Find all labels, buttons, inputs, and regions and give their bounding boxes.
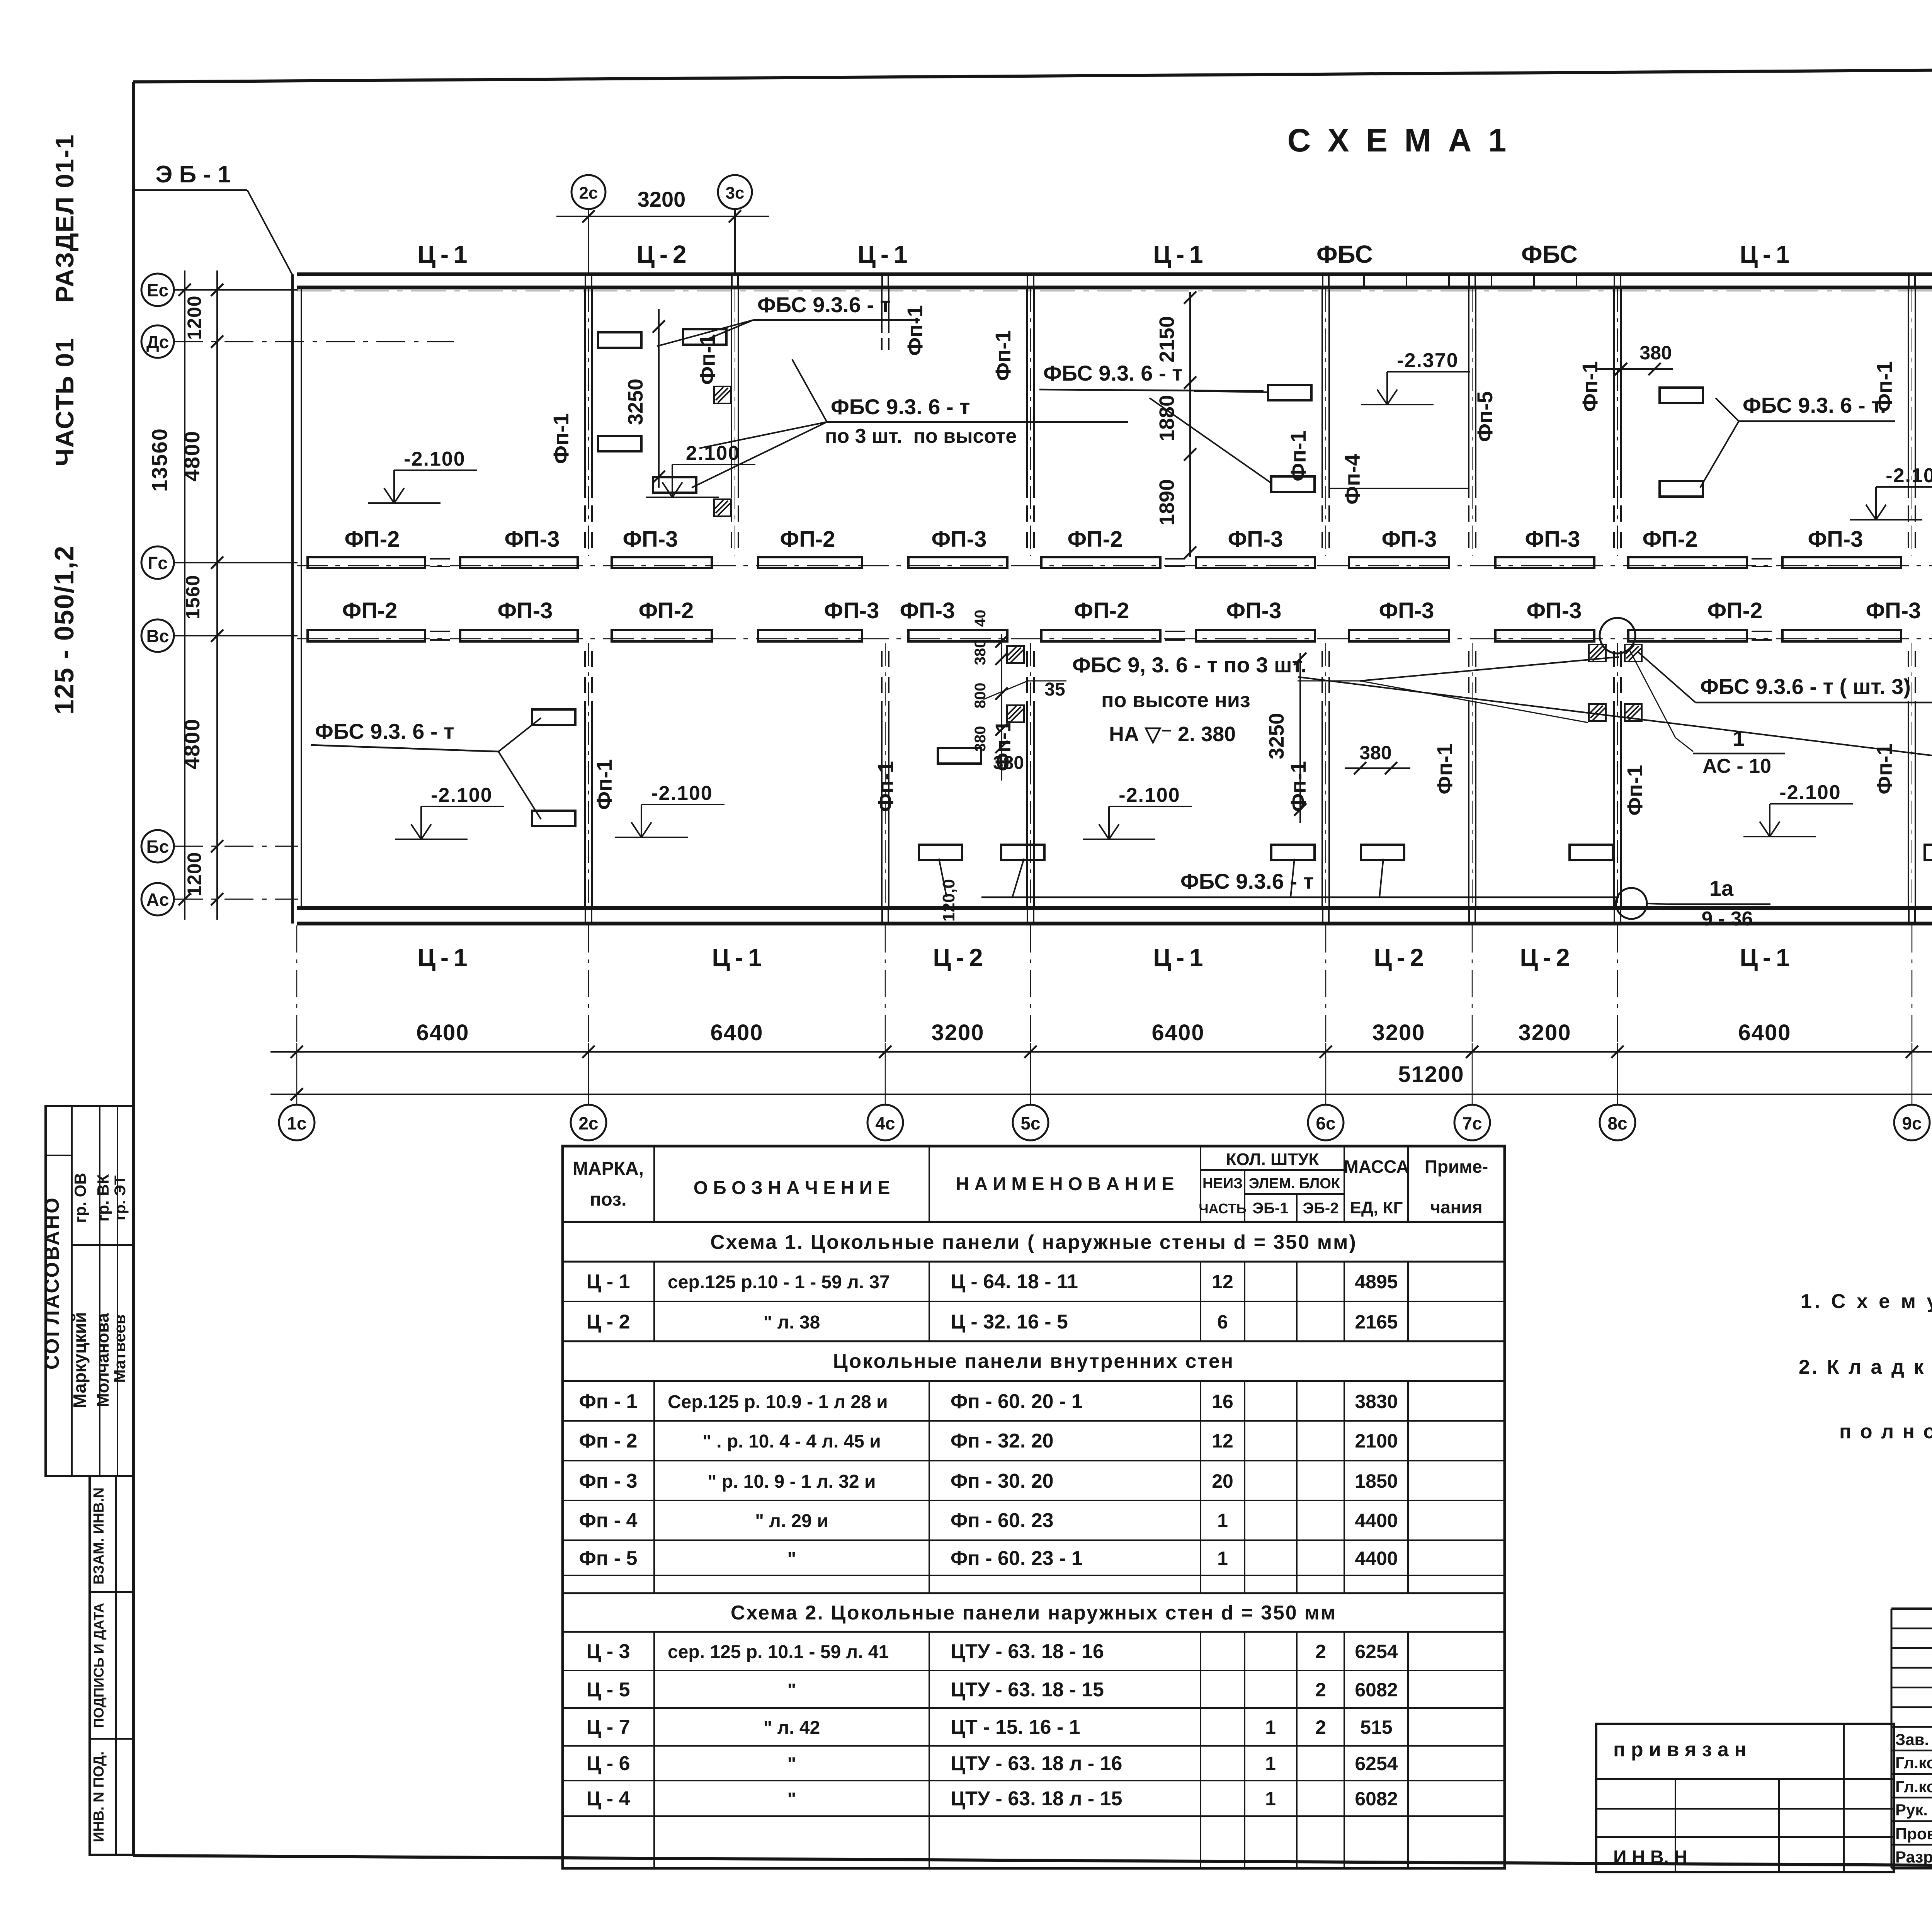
svg-text:1: 1 xyxy=(1265,1753,1276,1774)
svg-text:Маркуцкий: Маркуцкий xyxy=(70,1312,90,1408)
top exterior wall xyxy=(297,272,1932,276)
parts table outer border xyxy=(563,1146,1505,1868)
svg-text:ЦТУ - 63. 18 л - 15: ЦТУ - 63. 18 л - 15 xyxy=(951,1788,1122,1810)
interior wall ФП-1 at 7c lower half xyxy=(1468,701,1469,907)
svg-text:3с: 3с xyxy=(726,184,745,202)
svg-text:2150: 2150 xyxy=(1155,316,1179,362)
svg-text:ЦТ - 15. 16 - 1: ЦТ - 15. 16 - 1 xyxy=(951,1716,1080,1738)
parts table header verticals xyxy=(653,1146,655,1222)
hatch square right of 3c lower xyxy=(714,499,731,516)
parts table header row lines xyxy=(1201,1169,1344,1171)
axis line Дc xyxy=(174,341,454,342)
svg-text:Ц - 1: Ц - 1 xyxy=(1153,240,1203,268)
svg-text:гр. ЭТ: гр. ЭТ xyxy=(112,1175,129,1220)
axis line drop 3c xyxy=(734,209,736,274)
svg-text:Фп - 30. 20: Фп - 30. 20 xyxy=(951,1470,1054,1492)
svg-text:Ц - 6: Ц - 6 xyxy=(586,1752,630,1775)
stamp column line 2 xyxy=(99,1106,100,1476)
svg-text:1880: 1880 xyxy=(1155,395,1179,441)
axis circle Аc xyxy=(141,883,174,915)
svg-text:1: 1 xyxy=(1217,1510,1228,1531)
svg-text:ЭБ-2: ЭБ-2 xyxy=(1303,1200,1339,1217)
block ФБС bay 5c-6c upper xyxy=(1268,385,1311,400)
axis circle Дc xyxy=(141,325,174,358)
privyazan vertical line c xyxy=(1843,1724,1845,1872)
svg-text:ФП-3: ФП-3 xyxy=(1226,598,1282,623)
vertical dim 3250 bay 6c xyxy=(1299,653,1301,823)
svg-text:Аc: Аc xyxy=(146,890,169,910)
corridor upper wall panel segment xyxy=(308,557,425,568)
svg-text:Фп-5: Фп-5 xyxy=(1473,391,1497,442)
svg-text:380: 380 xyxy=(993,753,1024,773)
block ФБС bay 5c-6c lower xyxy=(1271,476,1315,492)
svg-text:И Н В. Н: И Н В. Н xyxy=(1613,1847,1687,1868)
svg-text:2с: 2с xyxy=(579,184,598,202)
svg-text:ФП-3: ФП-3 xyxy=(1525,527,1580,552)
svg-text:20: 20 xyxy=(1212,1470,1233,1492)
svg-text:515: 515 xyxy=(1360,1716,1392,1738)
svg-text:3200: 3200 xyxy=(1518,1020,1571,1045)
svg-text:ЧАСТЬ 01: ЧАСТЬ 01 xyxy=(50,337,79,466)
svg-text:2: 2 xyxy=(1315,1716,1326,1738)
dimension tick left chain xyxy=(211,840,223,852)
svg-text:": " л. 38 xyxy=(764,1312,820,1333)
svg-text:4400: 4400 xyxy=(1355,1548,1398,1569)
parts table data row xyxy=(563,1575,1505,1576)
svg-text:Ц - 2: Ц - 2 xyxy=(933,944,983,971)
svg-text:4800: 4800 xyxy=(180,718,204,770)
svg-text:Фп-1: Фп-1 xyxy=(592,759,616,810)
interior wall ФП-1 at 7c upper half xyxy=(1468,289,1469,498)
svg-text:НА ▽⁻ 2. 380: НА ▽⁻ 2. 380 xyxy=(1109,723,1236,746)
svg-text:сер.125 р.10 - 1 - 59 л. 37: сер.125 р.10 - 1 - 59 л. 37 xyxy=(668,1272,890,1293)
svg-text:6с: 6с xyxy=(1316,1113,1335,1133)
corridor upper wall panel segment xyxy=(612,557,712,568)
svg-text:-2.100: -2.100 xyxy=(651,782,713,805)
svg-text:1: 1 xyxy=(1733,726,1745,750)
left total dimension line xyxy=(184,270,185,920)
svg-text:ЭБ-1: ЭБ-1 xyxy=(1253,1200,1289,1217)
inventory strip box xyxy=(90,1476,133,1855)
svg-text:ФП-3: ФП-3 xyxy=(505,527,560,552)
svg-text:ФБС 9.3.6 - т ( шт. 3): ФБС 9.3.6 - т ( шт. 3) xyxy=(1700,674,1911,699)
svg-text:ПОДПИСЬ И ДАТА: ПОДПИСЬ И ДАТА xyxy=(91,1603,107,1728)
corridor upper wall dashed joint xyxy=(430,558,456,560)
corridor upper wall panel segment xyxy=(1495,557,1594,568)
svg-text:3250: 3250 xyxy=(1265,713,1288,759)
svg-text:1с: 1с xyxy=(287,1113,306,1133)
interior wall ФП-1 at 8c upper half xyxy=(1613,289,1615,498)
svg-text:3200: 3200 xyxy=(931,1020,984,1045)
svg-text:120,0: 120,0 xyxy=(939,879,958,922)
svg-text:Ц - 32. 16 - 5: Ц - 32. 16 - 5 xyxy=(951,1311,1068,1333)
svg-text:380: 380 xyxy=(972,640,989,665)
svg-text:6400: 6400 xyxy=(1738,1020,1791,1045)
svg-text:-2.100: -2.100 xyxy=(404,448,465,470)
svg-text:4800: 4800 xyxy=(180,430,204,482)
svg-text:Сер.125 р. 10.9 - 1 л 2: Сер.125 р. 10.9 - 1 л 28 и xyxy=(668,1392,888,1412)
svg-text:ФП-2: ФП-2 xyxy=(780,527,835,552)
title block row Зав. отд Бахолдина xyxy=(1891,1750,1932,1752)
svg-text:Гc: Гc xyxy=(148,553,168,573)
axis circle Бc xyxy=(141,830,174,862)
svg-text:сер. 125 р. 10.1 - 59 л. 41: сер. 125 р. 10.1 - 59 л. 41 xyxy=(668,1642,889,1662)
svg-text:3200: 3200 xyxy=(1372,1020,1425,1045)
privyazan vertical line b xyxy=(1778,1779,1780,1872)
bottom wall panel joints xyxy=(585,908,586,924)
svg-text:380: 380 xyxy=(1359,742,1391,764)
block ФБС bay 4c-5c mid xyxy=(938,748,981,764)
svg-text:Ц - 1: Ц - 1 xyxy=(1740,240,1789,268)
inventory strip divider 1 xyxy=(90,1591,133,1593)
svg-text:Ц - 3: Ц - 3 xyxy=(586,1640,630,1663)
svg-text:ВЗАМ. ИНВ.N: ВЗАМ. ИНВ.N xyxy=(91,1487,107,1584)
svg-text:2165: 2165 xyxy=(1355,1311,1398,1333)
hatch squares flanking 8c xyxy=(1589,645,1606,662)
svg-text:Провер.: Провер. xyxy=(1895,1825,1932,1843)
svg-text:6082: 6082 xyxy=(1355,1679,1398,1701)
left segment dimension line xyxy=(216,270,218,920)
blocks ФБС bay 8c right xyxy=(1660,388,1703,403)
stamp column line 3 xyxy=(117,1106,118,1476)
parts table data row xyxy=(563,1815,1505,1817)
privyazan vertical line a xyxy=(1675,1779,1676,1872)
title block signature grid columns upper xyxy=(1891,1609,1893,1868)
svg-text:800: 800 xyxy=(972,683,989,709)
svg-text:1: 1 xyxy=(1217,1548,1228,1569)
svg-text:Фп-1: Фп-1 xyxy=(695,334,719,384)
corridor lower wall panel segment xyxy=(460,630,578,641)
corridor lower wall axis line xyxy=(297,638,1932,640)
svg-text:2: 2 xyxy=(1315,1641,1326,1662)
block ФБС bay 2c-3c lower xyxy=(653,477,696,493)
parts table section heading row xyxy=(563,1221,1505,1223)
svg-text:ФП-3: ФП-3 xyxy=(932,527,987,552)
svg-text:Фп - 1: Фп - 1 xyxy=(579,1390,638,1413)
privyazan internal row line 3 xyxy=(1596,1836,1894,1838)
dimension tick left chain xyxy=(211,284,223,296)
blocks ФБС bay 1c-2c lower xyxy=(532,709,575,725)
top dimension line 2c-3c xyxy=(556,216,769,217)
svg-text:6082: 6082 xyxy=(1355,1788,1398,1810)
parts table data row xyxy=(563,1420,1505,1422)
title block row Гл.кон.пр Борисов xyxy=(1891,1797,1932,1799)
svg-text:Фп - 32. 20: Фп - 32. 20 xyxy=(951,1430,1054,1452)
top wall block ticks FBS bays xyxy=(1363,274,1365,287)
corridor lower wall dashed joint xyxy=(1165,631,1191,632)
svg-text:1850: 1850 xyxy=(1355,1470,1398,1492)
svg-text:1200: 1200 xyxy=(184,852,205,896)
bay dimension line xyxy=(270,1051,1932,1053)
svg-text:Дc: Дc xyxy=(146,332,169,352)
title block row Рук. бр. Чекалинд xyxy=(1891,1820,1932,1822)
svg-text:6: 6 xyxy=(1217,1311,1228,1333)
svg-text:Фп - 2: Фп - 2 xyxy=(579,1430,638,1452)
corridor upper wall dashed joint xyxy=(1165,558,1191,560)
svg-text:ФП-3: ФП-3 xyxy=(1527,598,1582,623)
svg-text:гр. ВК: гр. ВК xyxy=(94,1174,112,1221)
svg-text:Ц - 1: Ц - 1 xyxy=(417,240,467,268)
svg-text:" л: " л. 29 и xyxy=(755,1511,828,1531)
svg-text:ФП-2: ФП-2 xyxy=(345,527,400,552)
top wall panel joints xyxy=(585,274,586,287)
dimension tick left chain xyxy=(211,335,223,348)
svg-text:-2.100: -2.100 xyxy=(1119,784,1180,806)
interior wall ФП-1 at 6c lower half xyxy=(1321,701,1323,907)
svg-text:" л: " л. 42 xyxy=(764,1718,820,1738)
axis line Ec under top wall xyxy=(297,291,1932,291)
svg-text:Молчанова: Молчанова xyxy=(94,1313,112,1407)
svg-text:ФБС 9.3. 6 - т: ФБС 9.3. 6 - т xyxy=(1043,361,1183,385)
svg-text:Фп-1: Фп-1 xyxy=(1432,743,1457,794)
svg-text:ЭЛЕМ. БЛОК: ЭЛЕМ. БЛОК xyxy=(1249,1175,1340,1192)
svg-text:Бc: Бc xyxy=(146,837,169,857)
svg-text:6254: 6254 xyxy=(1355,1641,1398,1662)
svg-text:-2.100: -2.100 xyxy=(1779,781,1841,804)
svg-text:ФП-3: ФП-3 xyxy=(1808,527,1863,552)
corridor lower wall panel segment xyxy=(308,630,425,641)
svg-text:ФП-3: ФП-3 xyxy=(900,598,955,623)
axis line Ec xyxy=(174,289,298,291)
svg-text:3250: 3250 xyxy=(624,379,647,425)
svg-text:Фп - 5: Фп - 5 xyxy=(579,1547,638,1570)
svg-text:Ц - 1: Ц - 1 xyxy=(857,240,907,268)
svg-text:1560: 1560 xyxy=(182,575,204,619)
svg-text:35: 35 xyxy=(1044,679,1065,700)
svg-text:Гл.кон.пр: Гл.кон.пр xyxy=(1895,1778,1932,1796)
svg-text:7с: 7с xyxy=(1462,1113,1482,1133)
svg-text:1: 1 xyxy=(1265,1716,1276,1738)
room bottom line bay 6c-7c xyxy=(1329,488,1468,489)
svg-text:Рук. бр.: Рук. бр. xyxy=(1895,1801,1932,1819)
svg-text:ЦТУ - 63. 18 л - 16: ЦТУ - 63. 18 л - 16 xyxy=(951,1752,1122,1775)
svg-text:1: 1 xyxy=(1265,1788,1276,1810)
svg-text:п о л н о т е л о г о к и р: п о л н о т е л о г о к и р п и ч а М - … xyxy=(1839,1420,1932,1443)
svg-text:ЦТУ - 63. 18 - 16: ЦТУ - 63. 18 - 16 xyxy=(951,1640,1104,1663)
svg-text:МАРКА,: МАРКА, xyxy=(573,1158,644,1179)
flag 1 АС-10 xyxy=(1693,753,1785,755)
svg-text:Фп-1: Фп-1 xyxy=(873,761,898,811)
svg-text:1. С х е м у 2 и р а з р: 1. С х е м у 2 и р а з р е з I - I с м. … xyxy=(1801,1290,1932,1313)
svg-text:Зав. отд: Зав. отд xyxy=(1895,1730,1932,1749)
axis circle 3c top xyxy=(718,175,752,209)
dimension tick left chain xyxy=(211,556,223,569)
svg-text:Ц - 2: Ц - 2 xyxy=(1520,944,1570,971)
small dim stack 40 380 800 380 near 5c xyxy=(1001,634,1002,781)
svg-text:Гл.кон.от: Гл.кон.от xyxy=(1895,1754,1932,1772)
title block bottom line xyxy=(1891,1867,1932,1869)
svg-text:ЦТУ - 63. 18 - 15: ЦТУ - 63. 18 - 15 xyxy=(951,1679,1104,1701)
svg-text:ФП-2: ФП-2 xyxy=(1708,598,1763,623)
svg-text:Вc: Вc xyxy=(146,626,169,646)
svg-text:АС - 10: АС - 10 xyxy=(1702,755,1771,777)
svg-text:КОЛ. ШТУК: КОЛ. ШТУК xyxy=(1226,1150,1319,1169)
inventory strip divider 2 xyxy=(90,1738,133,1740)
parts table data row xyxy=(563,1301,1505,1302)
interior wall ФП-1 at 2c lower half xyxy=(584,701,586,907)
privyazan table outer xyxy=(1596,1724,1894,1872)
svg-text:Фп-1: Фп-1 xyxy=(903,305,927,356)
interior wall ФП-1 at 4c lower half xyxy=(881,701,883,907)
svg-text:ФП-2: ФП-2 xyxy=(342,598,398,623)
svg-text:Ц - 1: Ц - 1 xyxy=(417,944,467,971)
corridor lower wall dashed joint xyxy=(1752,631,1778,632)
svg-text:ФП-2: ФП-2 xyxy=(1074,598,1129,623)
title block row Гл.кон.от ТАИРОВ xyxy=(1891,1773,1932,1775)
svg-text:Ц - 2: Ц - 2 xyxy=(586,1311,630,1333)
svg-text:Ц - 2: Ц - 2 xyxy=(636,240,686,268)
corridor upper wall dashed joint xyxy=(1752,558,1778,560)
svg-text:ФБС: ФБС xyxy=(1521,240,1578,268)
svg-text:6400: 6400 xyxy=(1151,1020,1204,1045)
svg-text:6400: 6400 xyxy=(416,1020,469,1045)
interior wall ФП-1 at 3c upper half xyxy=(731,289,732,498)
svg-text:чания: чания xyxy=(1430,1197,1482,1217)
svg-text:Ц - 5: Ц - 5 xyxy=(586,1679,630,1701)
svg-text:ФП-3: ФП-3 xyxy=(1379,598,1434,623)
axis line Вc xyxy=(174,635,298,636)
svg-text:Схема 1. Цокольные панели (: Схема 1. Цокольные панели ( наружные сте… xyxy=(710,1231,1357,1254)
svg-text:Ц - 64. 18 - 11: Ц - 64. 18 - 11 xyxy=(951,1271,1078,1293)
svg-text:Матвеев: Матвеев xyxy=(111,1314,129,1383)
corridor lower wall panel segment xyxy=(612,630,712,641)
vertical dim chain 2150 1880 1890 bay 5c-6c xyxy=(1189,292,1191,557)
stamp header divider xyxy=(72,1244,133,1246)
title block row Разраб. Решетова xyxy=(1891,1868,1932,1869)
svg-text:ФП-2: ФП-2 xyxy=(639,598,694,623)
svg-text:2с: 2с xyxy=(578,1113,598,1133)
svg-text:ЕД, КГ: ЕД, КГ xyxy=(1350,1198,1403,1217)
svg-text:Приме-: Приме- xyxy=(1425,1157,1488,1177)
svg-text:12: 12 xyxy=(1212,1271,1233,1293)
svg-text:Разраб.: Разраб. xyxy=(1895,1848,1932,1866)
svg-text:ФБС 9.3. 6 - т: ФБС 9.3. 6 - т xyxy=(831,395,970,419)
parts table data row xyxy=(563,1707,1505,1709)
svg-text:ФП-2: ФП-2 xyxy=(1068,527,1123,552)
interior wall ФП-1 at 8c lower half xyxy=(1613,701,1615,907)
vertical dim 3250 bay 2c-3c xyxy=(658,309,660,488)
corridor lower wall panel segment xyxy=(1628,630,1747,641)
blocks near 6c-7c lower xyxy=(1271,845,1315,860)
junction circle at 8c bottom wall xyxy=(1616,888,1647,919)
block ФБС left of 5c lower xyxy=(1001,845,1044,860)
svg-text:-2.100: -2.100 xyxy=(1886,464,1932,487)
stamp column line 1 xyxy=(71,1106,73,1476)
svg-text:по 3 шт. по высоте: по 3 шт. по высоте xyxy=(825,425,1017,447)
svg-text:" р. 10. 9 - 1 л.: " р. 10. 9 - 1 л. 32 и xyxy=(708,1471,876,1492)
svg-text:": " xyxy=(787,1754,796,1774)
svg-text:Ц - 2: Ц - 2 xyxy=(1374,944,1423,971)
axis circle Гc xyxy=(141,546,174,579)
svg-text:ЧАСТЬ: ЧАСТЬ xyxy=(1199,1201,1246,1216)
bottom exterior wall xyxy=(297,906,1932,910)
svg-text:РАЗДЕЛ 01-1: РАЗДЕЛ 01-1 xyxy=(50,134,79,303)
svg-text:МАССА: МАССА xyxy=(1344,1157,1409,1177)
svg-text:2100: 2100 xyxy=(1355,1430,1398,1452)
svg-text:Фп-1: Фп-1 xyxy=(549,413,573,464)
svg-text:ФБС 9.3. 6 - т.: ФБС 9.3. 6 - т. xyxy=(1743,393,1886,417)
svg-text:1890: 1890 xyxy=(1155,479,1179,526)
svg-text:ИНВ. N ПОД.: ИНВ. N ПОД. xyxy=(91,1751,107,1842)
dimension tick total bottom xyxy=(179,893,191,905)
interior wall ФП-1 at 9c upper half xyxy=(1908,289,1909,498)
corridor upper wall axis line xyxy=(297,565,1932,566)
svg-text:40: 40 xyxy=(972,610,989,627)
svg-text:1а: 1а xyxy=(1709,876,1734,900)
svg-text:380: 380 xyxy=(1639,342,1672,364)
parts table data row xyxy=(563,1592,1505,1594)
svg-text:ФБС: ФБС xyxy=(1316,240,1373,268)
leader polyline to hatches xyxy=(983,681,1066,699)
corridor lower wall panel segment xyxy=(908,630,1007,641)
svg-text:Фп - 60. 20 - 1: Фп - 60. 20 - 1 xyxy=(951,1390,1083,1413)
parts table section heading row xyxy=(563,1340,1505,1342)
svg-text:Фп-1: Фп-1 xyxy=(1286,430,1310,481)
svg-text:" . р. 10. 4 - 4 л.: " . р. 10. 4 - 4 л. 45 и xyxy=(702,1431,881,1452)
svg-text:п р и в я з а н: п р и в я з а н xyxy=(1613,1738,1747,1761)
left exterior wall 1c xyxy=(291,274,294,924)
axis extension lines to circles xyxy=(296,925,298,1043)
parts table data row xyxy=(563,1670,1505,1671)
svg-text:Ec: Ec xyxy=(147,280,168,300)
svg-text:С Х Е М А 1: С Х Е М А 1 xyxy=(1287,122,1510,158)
svg-text:1200: 1200 xyxy=(184,295,205,340)
parts table data row xyxy=(563,1780,1505,1781)
svg-text:ФП-3: ФП-3 xyxy=(498,598,553,623)
corridor upper wall panel segment xyxy=(1628,557,1747,568)
interior wall stub at 4c top xyxy=(881,289,883,333)
svg-text:Фп - 3: Фп - 3 xyxy=(579,1470,638,1492)
svg-text:Ц - 1: Ц - 1 xyxy=(1153,944,1203,971)
svg-text:Ц - 1: Ц - 1 xyxy=(1740,944,1789,971)
interior wall ФП-1 at 5c lower half xyxy=(1026,701,1028,907)
svg-text:ФП-2: ФП-2 xyxy=(1643,527,1698,552)
svg-text:ФБС 9.3.6 - т: ФБС 9.3.6 - т xyxy=(757,293,891,317)
svg-text:Фп-4: Фп-4 xyxy=(1340,454,1364,504)
svg-text:-2.370: -2.370 xyxy=(1397,349,1458,372)
svg-text:Ц - 7: Ц - 7 xyxy=(586,1716,630,1738)
leader diagonal to lower block bay 5c-6c xyxy=(1150,398,1271,483)
svg-text:Н А И М Е Н О В А Н И Е: Н А И М Е Н О В А Н И Е xyxy=(956,1174,1174,1194)
corridor lower wall panel segment xyxy=(1041,630,1160,641)
privyazan internal row line 1 xyxy=(1596,1778,1894,1780)
parts table data row xyxy=(563,1460,1505,1461)
interior wall ФП-1 at 2c upper half xyxy=(584,289,586,498)
interior wall ФП-1 at 5c upper half xyxy=(1026,289,1028,498)
total dimension line xyxy=(270,1094,1932,1095)
parts table section heading row xyxy=(563,1592,1505,1594)
corridor upper wall panel segment xyxy=(1196,557,1315,568)
svg-text:3830: 3830 xyxy=(1355,1391,1398,1412)
hatch squares left of 5c xyxy=(1007,646,1024,663)
axis line drop 2c xyxy=(588,209,589,274)
privyazan internal row line 2 xyxy=(1596,1808,1894,1810)
dimension tick left chain xyxy=(211,893,223,905)
svg-text:Фп-1: Фп-1 xyxy=(991,330,1015,381)
corridor lower wall panel segment xyxy=(758,630,862,641)
interior wall ФП-1 at 9c lower half xyxy=(1908,701,1909,907)
block ФБС bay 2c-3c middle xyxy=(598,436,641,451)
svg-text:ФП-3: ФП-3 xyxy=(1228,527,1283,552)
axis line Бc xyxy=(174,846,298,847)
sheet frame border xyxy=(133,65,1932,82)
corridor lower wall panel segment xyxy=(1349,630,1449,641)
svg-text:ФП-3: ФП-3 xyxy=(1382,527,1437,552)
bottom axis circles xyxy=(279,1105,315,1140)
title block outer top line xyxy=(1891,1607,1932,1610)
svg-text:13560: 13560 xyxy=(147,428,172,492)
svg-text:О Б О З Н А Ч Е Н И Е: О Б О З Н А Ч Е Н И Е xyxy=(694,1178,890,1198)
